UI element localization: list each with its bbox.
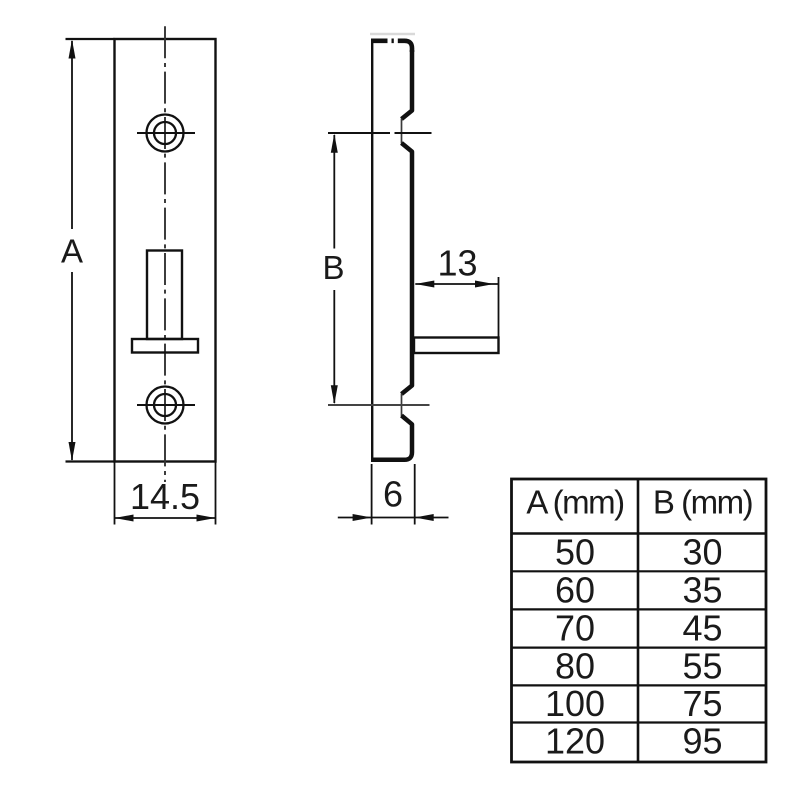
dimension 14.5 arrowhead left xyxy=(115,515,134,522)
table cell A 60 xyxy=(555,570,595,611)
hole H2 inner circle xyxy=(154,394,176,416)
hole H1 outer circle xyxy=(147,115,184,152)
svg-text:B: B xyxy=(322,249,344,286)
svg-text:B (mm): B (mm) xyxy=(653,484,752,521)
dimension 13 line xyxy=(415,283,498,285)
svg-text:60: 60 xyxy=(555,570,595,611)
dimension A top extension line xyxy=(66,38,115,40)
svg-text:80: 80 xyxy=(555,646,595,687)
dimension 14.5 left extension line xyxy=(114,462,116,525)
table cell B 35 xyxy=(682,570,722,611)
table cell A 50 xyxy=(555,531,595,572)
side view ghost line above top edge xyxy=(370,33,415,36)
svg-text:75: 75 xyxy=(682,683,722,724)
hole H2 horizontal crosshair xyxy=(137,404,195,406)
table cell B 95 xyxy=(682,721,722,762)
dimension B arrowhead down xyxy=(331,385,338,404)
table column divider xyxy=(637,479,640,762)
dimension B arrowhead up xyxy=(331,134,338,153)
table cell A 70 xyxy=(555,608,595,649)
side view top edge white gap 1 xyxy=(388,38,392,44)
dimension 6 right extension line xyxy=(414,464,416,525)
hole H1 inner circle xyxy=(154,122,176,144)
dimension A bottom extension line xyxy=(66,460,115,462)
table header cell A (mm) xyxy=(526,484,623,521)
dimension A arrowhead down xyxy=(69,442,76,461)
dimension 13 right extension line xyxy=(498,277,500,337)
svg-text:95: 95 xyxy=(682,721,722,762)
side view right edge lower segment with bottom lip and rounded bottom corner, bottom edge xyxy=(371,416,412,460)
dimension 6 line xyxy=(338,517,449,519)
table row divider 3 xyxy=(512,646,767,648)
table cell B 55 xyxy=(682,646,722,687)
dimension 6 arrowhead pointing left xyxy=(415,514,434,521)
side view top edge white gap 2 xyxy=(394,38,398,44)
table row divider 5 xyxy=(512,721,767,723)
dimension A label xyxy=(61,233,83,270)
svg-text:14.5: 14.5 xyxy=(130,476,200,517)
side view countersink bottom: vertical face xyxy=(401,394,403,417)
table cell A 100 xyxy=(545,683,605,724)
dimension 13 arrowhead left xyxy=(415,281,434,288)
dimension 13 arrowhead right xyxy=(475,281,494,288)
svg-text:A (mm): A (mm) xyxy=(526,484,623,521)
svg-text:120: 120 xyxy=(545,721,605,762)
svg-text:13: 13 xyxy=(437,243,477,284)
dimension B line upper segment xyxy=(333,135,335,249)
dimension A arrowhead up xyxy=(69,40,76,59)
dimension B bottom extension line xyxy=(328,404,430,406)
dimension 6 left extension line xyxy=(371,464,373,525)
dimension A line lower segment xyxy=(71,272,73,460)
bolt body (front view) xyxy=(147,251,182,340)
table row divider 4 xyxy=(512,684,767,686)
side view left edge xyxy=(371,39,373,460)
table cell A 80 xyxy=(555,646,595,687)
table cell B 30 xyxy=(682,531,722,572)
dimension 14.5 right extension line xyxy=(215,462,217,525)
svg-text:45: 45 xyxy=(682,608,722,649)
side view countersink top: vertical face xyxy=(401,119,403,144)
svg-text:55: 55 xyxy=(682,646,722,687)
dimension A line upper segment xyxy=(71,41,73,229)
table row divider 2 xyxy=(512,608,767,610)
front view plate outline xyxy=(115,39,216,462)
dimension B top extension line (right part) xyxy=(395,132,432,134)
svg-text:70: 70 xyxy=(555,608,595,649)
dimension 14.5 line xyxy=(115,517,216,519)
table header cell B (mm) xyxy=(653,484,752,521)
dimension 6 label xyxy=(383,474,403,515)
dimension B label xyxy=(322,249,344,286)
svg-text:30: 30 xyxy=(682,531,722,572)
table outer border xyxy=(512,479,767,762)
centerline (front view vertical dash-dot) xyxy=(164,26,166,482)
side view top edge with rounded right corner xyxy=(371,41,412,52)
svg-text:50: 50 xyxy=(555,531,595,572)
svg-text:6: 6 xyxy=(383,474,403,515)
dimension 14.5 arrowhead right xyxy=(197,515,216,522)
svg-text:100: 100 xyxy=(545,683,605,724)
dimension 6 arrowhead pointing right xyxy=(353,514,372,521)
svg-text:35: 35 xyxy=(682,570,722,611)
side view right edge middle segment with countersink lips xyxy=(402,143,413,394)
bolt bar (side view) xyxy=(414,338,499,354)
table cell B 75 xyxy=(682,683,722,724)
hole H1 horizontal crosshair xyxy=(137,132,195,134)
dimension 14.5 label xyxy=(130,476,200,517)
table row divider 1 xyxy=(512,570,767,572)
dimension B line lower segment xyxy=(333,290,335,403)
side view right edge upper segment with top countersink upper lip xyxy=(402,50,413,119)
table cell A 120 xyxy=(545,721,605,762)
bolt flange (front view) xyxy=(132,339,198,353)
dimension 13 label xyxy=(437,243,477,284)
hole H2 outer circle xyxy=(147,387,184,424)
dimension B top extension line (left part) xyxy=(328,132,390,134)
svg-text:A: A xyxy=(61,233,83,270)
table cell B 45 xyxy=(682,608,722,649)
table header divider xyxy=(512,532,767,534)
